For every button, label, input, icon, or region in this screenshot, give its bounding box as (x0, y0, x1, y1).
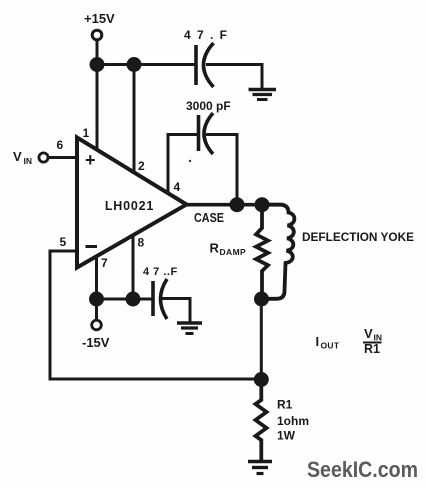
node junction at +15V rail pin2 (127, 57, 142, 72)
capacitor 3000 pF feedback (186, 99, 231, 154)
capacitor 4.7uF top bypass (184, 28, 229, 87)
svg-text:I: I (316, 334, 320, 349)
wire negative supply rail (97, 298, 154, 301)
svg-text:5: 5 (60, 235, 67, 249)
resistor R1 (256, 380, 310, 461)
capacitor 4.7uF bottom bypass (143, 266, 178, 319)
node junction at +15V rail left (90, 57, 105, 72)
ground top right (249, 90, 277, 100)
svg-text:1: 1 (83, 126, 90, 140)
ground below bottom cap (177, 323, 202, 334)
svg-text:4 7 . F: 4 7 . F (184, 28, 229, 42)
svg-text:+: + (85, 150, 96, 170)
svg-text:+15V: +15V (84, 11, 115, 26)
svg-text:2: 2 (138, 159, 145, 173)
wire pin1 from +15V rail (96, 65, 99, 150)
svg-text:1W: 1W (277, 429, 296, 443)
node junction feedback R1 (254, 372, 269, 387)
wire 3000pF right leg down to output (206, 133, 237, 205)
wire 3000pF left leg to pin 4 (168, 133, 199, 193)
svg-text:V: V (13, 149, 22, 164)
wire output from apex to yoke (187, 203, 285, 207)
power +15V terminal (84, 11, 115, 40)
wire bottom cap to ground (162, 297, 190, 323)
node Vin terminal (13, 149, 48, 166)
svg-text:LH0021: LH0021 (105, 199, 154, 213)
inductor deflection yoke (262, 205, 414, 299)
svg-text:R: R (210, 241, 220, 256)
svg-text:DAMP: DAMP (220, 247, 247, 257)
wire +15V terminal to top rail (96, 40, 99, 65)
node junction yoke bottom (254, 292, 269, 307)
svg-text:7: 7 (101, 256, 108, 270)
svg-text:V: V (364, 326, 373, 341)
svg-text:R1: R1 (364, 342, 380, 356)
svg-text:-15V: -15V (82, 335, 110, 350)
wire pin7 to negative rail (95, 256, 98, 299)
wire pin2 from +15V rail (133, 65, 136, 173)
node junction 3000pF on output (230, 197, 245, 212)
svg-text:IN: IN (374, 333, 383, 343)
svg-text:SeekIC.com: SeekIC.com (307, 457, 418, 482)
svg-text:DEFLECTION YOKE: DEFLECTION YOKE (302, 232, 414, 244)
node junction yoke top on output (255, 197, 270, 212)
svg-text:6: 6 (57, 138, 64, 152)
wire pin8 to negative rail (132, 236, 135, 299)
svg-text:4 7 ..F: 4 7 ..F (143, 266, 178, 278)
wire -15V rail to terminal (95, 299, 98, 321)
stray ink speck (189, 160, 191, 162)
node junction at -15V rail pin8 (126, 292, 141, 307)
wire feedback loop from pin 5 (49, 250, 262, 380)
op-amp U1 LH0021 (77, 138, 187, 268)
label Iout formula (316, 326, 383, 356)
node junction at -15V rail left (89, 292, 104, 307)
svg-text:8: 8 (138, 236, 145, 250)
svg-text:OUT: OUT (321, 341, 340, 351)
wire yoke bottom to feedback node (260, 299, 263, 380)
svg-text:1ohm: 1ohm (277, 414, 309, 428)
ground below R1 (248, 462, 272, 474)
wire Vin to pin 6 (48, 156, 77, 159)
svg-text:CASE: CASE (194, 211, 224, 225)
wire top supply rail (97, 63, 262, 89)
svg-text:3000 pF: 3000 pF (186, 99, 231, 113)
resistor RDAMP (210, 205, 269, 299)
svg-text:4: 4 (174, 180, 181, 194)
power -15V terminal (82, 320, 110, 350)
svg-text:R1: R1 (277, 398, 293, 412)
svg-text:IN: IN (24, 156, 33, 166)
